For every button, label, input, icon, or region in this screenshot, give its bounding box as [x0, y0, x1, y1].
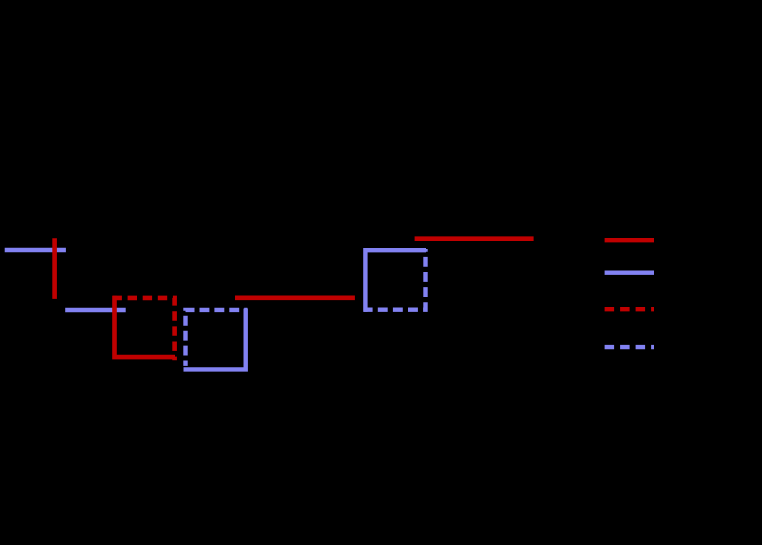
wire red-dashed corner level2-to-level3 — [113, 298, 175, 360]
legend sample red dashed — [605, 307, 654, 311]
wire red-solid horizontal level1 right — [415, 236, 534, 241]
wire red-solid step down V2 with bottom level3 — [115, 296, 176, 357]
wire blue-solid top-left horizontal level1 — [5, 248, 66, 252]
wire blue-solid horizontal level2 — [65, 308, 126, 312]
legend sample red solid — [605, 238, 654, 242]
legend sample blue dashed — [605, 345, 654, 349]
wire blue-dashed corner vertical-and-level2 — [186, 310, 248, 366]
wire blue-solid corner level2-down-to-level3 — [184, 309, 246, 370]
wire red-solid vertical step V1 — [52, 238, 57, 299]
legend sample blue solid — [605, 271, 654, 275]
wire blue-solid rise V and top level1 right — [365, 250, 426, 312]
wire red-solid horizontal level2 middle — [235, 295, 355, 300]
wire blue-dashed level2 and rise at right — [364, 249, 426, 310]
